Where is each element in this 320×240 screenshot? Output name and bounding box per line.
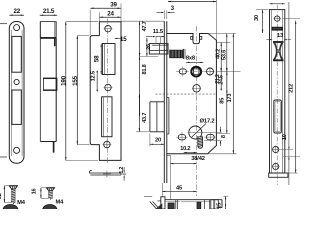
svg-text:21.5: 21.5 bbox=[43, 8, 55, 15]
svg-text:190: 190 bbox=[61, 75, 68, 85]
lock top width dim line (cropped text) bbox=[168, 1, 216, 3]
strike plate S1 latch cutout bbox=[12, 36, 21, 72]
faceplate F1 vertical centerline bbox=[106, 19, 108, 165]
svg-text:32: 32 bbox=[0, 193, 3, 199]
lock vertical centerline through follower axis bbox=[195, 26, 197, 196]
cylinder lower lobe bbox=[198, 136, 203, 148]
strike plate S1 deadbolt cutout bbox=[12, 90, 21, 124]
strip dark band bbox=[272, 27, 283, 30]
svg-text:43.7: 43.7 bbox=[142, 113, 148, 123]
strike plate S1 outer outline bbox=[9, 22, 24, 164]
strip inner edges bbox=[271, 10, 273, 173]
svg-text:155: 155 bbox=[72, 75, 79, 85]
faceplate F1 deadbolt cutout bbox=[102, 97, 112, 137]
latch spring hatched bbox=[170, 50, 183, 58]
faceplate F1 bottom screw hole bbox=[104, 141, 110, 147]
strike profile S2 bottom edge and tab bbox=[40, 141, 56, 143]
svg-text:M4: M4 bbox=[17, 200, 26, 206]
extension from faceplate to 38/42 dim bbox=[167, 154, 171, 156]
svg-text:12.5: 12.5 bbox=[91, 71, 97, 81]
latch bolt side view bbox=[149, 44, 168, 54]
svg-text:45: 45 bbox=[176, 185, 183, 191]
bottom view faceplate bar bbox=[161, 197, 165, 209]
left oval fixing hole bbox=[179, 69, 186, 74]
svg-text:15: 15 bbox=[216, 203, 222, 209]
cylinder hole circle bbox=[189, 126, 202, 139]
deadbolt side view bbox=[150, 101, 165, 103]
screw 2 head bbox=[47, 188, 55, 191]
svg-text:20: 20 bbox=[155, 137, 161, 143]
strike profile S2 right thin edge upper bbox=[55, 38, 57, 78]
strike plate S1 bottom screw hole bbox=[14, 147, 20, 153]
bottom view latch guide dark block bbox=[168, 203, 174, 209]
svg-text:85: 85 bbox=[219, 98, 225, 104]
strip deadbolt front bbox=[274, 100, 282, 133]
lock case outline bbox=[167, 34, 217, 154]
small hole below follower bbox=[193, 85, 200, 92]
faceplate F1 outline bbox=[90, 22, 121, 161]
cylinder center tick bbox=[188, 132, 203, 134]
strip top screw hole bbox=[275, 16, 280, 21]
lock top extension lines right bbox=[208, 33, 236, 35]
svg-text:24.5: 24.5 bbox=[219, 75, 225, 85]
bottom view verticals bbox=[204, 200, 206, 209]
strip bottom screw hole bbox=[273, 163, 279, 169]
faceplate F1 top screw hole bbox=[105, 26, 111, 32]
bottom view follower dark block bbox=[197, 202, 201, 209]
svg-text:30: 30 bbox=[254, 15, 260, 21]
right fixing hole bbox=[207, 68, 214, 75]
faceplate F1 latch cutout bbox=[102, 44, 115, 75]
bottom view latch bevel bbox=[150, 202, 157, 210]
svg-text:11.5: 11.5 bbox=[153, 29, 164, 35]
svg-text:M4: M4 bbox=[55, 200, 64, 206]
strip top dim bbox=[270, 3, 285, 5]
strike plate S1 top screw hole bbox=[14, 25, 20, 31]
strike profile S2 right thin edge lower bbox=[55, 91, 57, 142]
svg-text:24: 24 bbox=[107, 10, 114, 17]
screw 1 threaded shank bbox=[12, 189, 15, 203]
svg-text:38/42: 38/42 bbox=[191, 156, 205, 162]
screw 1 head bbox=[9, 186, 17, 189]
svg-text:10.2: 10.2 bbox=[180, 146, 190, 152]
faceplate F1 middle screw hole bbox=[105, 84, 111, 90]
bottom view end cap box bbox=[211, 200, 219, 209]
strike profile S2 left edge line bbox=[39, 22, 41, 142]
svg-text:10: 10 bbox=[282, 134, 288, 140]
strike plate S1 inner outline bbox=[11, 30, 13, 156]
bottom view vertical pair bbox=[175, 200, 177, 209]
strike plate S1 extension ticks at left edge bbox=[0, 23, 7, 25]
strip centerline bbox=[276, 5, 278, 185]
lock horizontal dashed line bbox=[156, 93, 217, 95]
follower hub bbox=[191, 67, 201, 77]
lock case notch side tabs bbox=[191, 36, 193, 39]
screw 2 threaded shank bbox=[49, 191, 53, 199]
svg-text:81.8: 81.8 bbox=[142, 64, 148, 74]
svg-text:13: 13 bbox=[277, 33, 284, 39]
cylinder row left oval hole bbox=[178, 135, 185, 140]
screw 1 head top view bbox=[3, 205, 18, 216]
follower row centerline bbox=[176, 71, 216, 73]
svg-text:22: 22 bbox=[14, 8, 21, 15]
long right extension line bbox=[288, 2, 290, 185]
lock faceplate side edge (double line) bbox=[163, 21, 165, 183]
svg-text:39: 39 bbox=[110, 2, 117, 9]
screw 2 head top view bbox=[43, 205, 58, 216]
svg-text:212: 212 bbox=[289, 84, 295, 93]
svg-text:173: 173 bbox=[227, 94, 233, 103]
faceplate F1 top view strip bbox=[90, 170, 122, 175]
faceplate F1 strip hole center mark bbox=[106, 171, 108, 177]
svg-text:Ø17.2: Ø17.2 bbox=[200, 118, 215, 124]
faceplate F1 extension lines for width dims bbox=[89, 10, 91, 35]
svg-text:16: 16 bbox=[31, 189, 37, 195]
svg-text:58: 58 bbox=[93, 55, 100, 62]
strip bottom foot bbox=[269, 173, 288, 177]
svg-text:47.7: 47.7 bbox=[142, 21, 148, 31]
strike profile S2 top lug box bbox=[40, 22, 56, 39]
bottom view stray ext segment bbox=[144, 196, 152, 198]
strike profile S2 middle lug box bbox=[43, 78, 57, 91]
bottom view case outline bbox=[165, 199, 222, 201]
cylinder row right oval hole bbox=[206, 134, 214, 139]
faceplate boss at deadbolt bbox=[168, 98, 170, 135]
svg-text:8x8: 8x8 bbox=[186, 55, 196, 61]
strip latch bolt spool front bbox=[273, 41, 284, 43]
strip lower screw hole bbox=[273, 146, 279, 152]
strip outline bbox=[270, 10, 285, 173]
svg-text:15: 15 bbox=[120, 36, 127, 43]
strike plate S1 middle hole bbox=[14, 79, 19, 84]
svg-text:8: 8 bbox=[221, 135, 227, 138]
